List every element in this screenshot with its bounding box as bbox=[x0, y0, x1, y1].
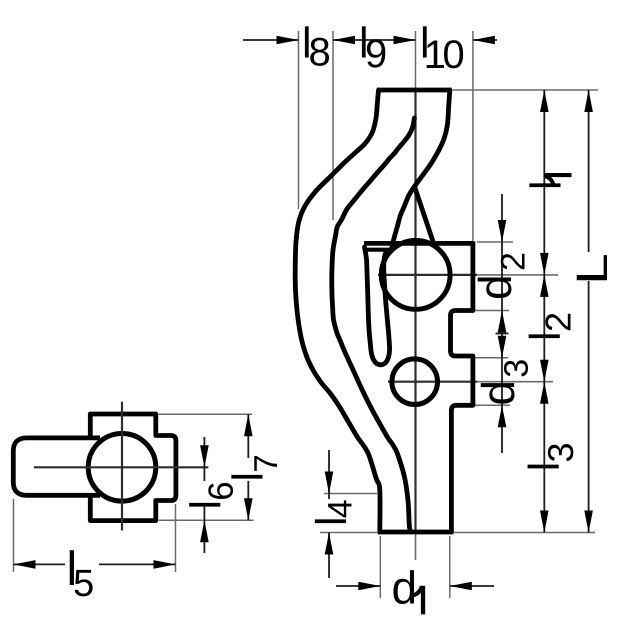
label l1 bbox=[529, 173, 571, 187]
arrow l6 top bbox=[200, 445, 209, 467]
label d3 bbox=[481, 360, 528, 403]
bore d2 circle bbox=[381, 241, 450, 310]
dim line l9 bbox=[333, 39, 416, 41]
arrow L top bbox=[584, 90, 593, 112]
dim line l6 upper bbox=[203, 437, 205, 481]
arrow l2 top bbox=[540, 275, 549, 297]
handle right neck contour bbox=[392, 90, 450, 250]
arrow l5 right bbox=[154, 560, 176, 569]
arrow l9 right bbox=[394, 36, 416, 45]
handle outer left contour bbox=[295, 90, 380, 532]
arrow d2 bottom bbox=[498, 311, 507, 333]
handle inner left contour bbox=[332, 118, 415, 530]
arrow d1 right bbox=[450, 582, 472, 591]
label l5 bbox=[70, 550, 93, 596]
extension line l4 bbox=[324, 493, 377, 495]
arrow l1 top bbox=[540, 90, 549, 112]
label l8 bbox=[305, 26, 329, 66]
label l6 bbox=[189, 483, 233, 507]
gusset line to boss bbox=[415, 187, 434, 242]
arrow l4 top bbox=[325, 472, 334, 494]
clamp bore circle bbox=[88, 434, 156, 502]
arrow l8 left bbox=[277, 36, 299, 45]
arrow l3 top bbox=[540, 382, 549, 404]
main centerline extension top bbox=[415, 31, 417, 90]
arrow l10 right bbox=[473, 36, 495, 45]
arrow d1 left bbox=[358, 582, 380, 591]
bore d2 centerline bbox=[378, 274, 477, 276]
dim line l8 tail bbox=[243, 39, 299, 41]
dim line d1 right bbox=[450, 585, 494, 587]
clamp horizontal centerline bbox=[34, 466, 209, 468]
dim chain l1 l2 l3 bbox=[543, 90, 545, 533]
extension tick d3 top bbox=[475, 357, 508, 359]
extension tick d3 bottom bbox=[475, 404, 510, 406]
label l3 bbox=[528, 444, 574, 468]
dim line l4 lower bbox=[328, 533, 330, 579]
label l9 bbox=[362, 26, 385, 67]
dim line L lower bbox=[588, 281, 590, 533]
arrow l5 left bbox=[14, 560, 36, 569]
extension line l5 right bbox=[175, 504, 177, 572]
label l7 bbox=[231, 456, 277, 479]
label l4 bbox=[315, 500, 352, 523]
arrow l3 bottom bbox=[540, 511, 549, 533]
clamp head outline bbox=[90, 414, 176, 521]
boss inner top edge bbox=[367, 248, 391, 252]
extension line l8 right bbox=[332, 31, 334, 220]
extension line top edge bbox=[452, 89, 598, 91]
arrow l7 top bbox=[244, 414, 253, 436]
bore d3 centerline bbox=[388, 381, 477, 383]
dim line d2 d3 bbox=[501, 194, 503, 453]
arrow l7 bottom bbox=[244, 498, 253, 520]
bore d2 centerline extension bbox=[477, 274, 558, 276]
bore d3 circle bbox=[392, 359, 438, 405]
tick between d2 d3 arrows bbox=[496, 333, 509, 335]
arrow l2 bottom bbox=[540, 360, 549, 382]
dim line l4 upper bbox=[328, 450, 330, 499]
boss right edge with notch bbox=[451, 241, 473, 532]
dim line l7 upper bbox=[247, 414, 249, 458]
main centerline extension bottom bbox=[415, 532, 417, 560]
label d1 bbox=[393, 570, 425, 614]
extension tick d2 bottom bbox=[475, 310, 509, 312]
label l2 bbox=[529, 314, 571, 338]
handle top edge bbox=[377, 88, 452, 93]
arrow l6 bottom bbox=[200, 520, 209, 542]
arrow L bottom bbox=[584, 511, 593, 533]
label L bbox=[577, 255, 607, 280]
extension line bottom right bbox=[454, 532, 595, 534]
clamp vertical centerline bbox=[121, 402, 123, 531]
bore d3 centerline extension bbox=[477, 381, 553, 383]
dim line l10 tail bbox=[473, 39, 497, 41]
arrow d2 top bbox=[498, 220, 507, 242]
extension line d1 left bbox=[379, 536, 381, 598]
stem bottom edge bbox=[378, 530, 454, 535]
label d2 bbox=[478, 254, 525, 298]
extension tick d2 top bbox=[477, 241, 513, 243]
clamp arm outline bbox=[13, 438, 100, 495]
arrow d3 top bbox=[498, 336, 507, 358]
pawl contour bbox=[365, 247, 390, 365]
arrow l4 bottom bbox=[325, 533, 334, 555]
dim line l6 lower bbox=[203, 506, 205, 553]
arrow l8 right bbox=[333, 36, 355, 45]
extension line d1 right bbox=[449, 536, 451, 598]
extension line l5 left bbox=[13, 499, 15, 572]
boss top edge bbox=[364, 241, 473, 246]
dim line l7 lower bbox=[247, 481, 249, 520]
extension line head top bbox=[159, 413, 253, 415]
extension line bottom left bbox=[320, 532, 377, 534]
clamp arm fill bbox=[13, 438, 100, 495]
arrow d3 bottom bbox=[498, 405, 507, 427]
extension line boss right bbox=[472, 31, 474, 241]
dim line l5 left bbox=[14, 563, 66, 565]
extension line head bottom bbox=[159, 519, 254, 521]
extension line l8 left bbox=[298, 31, 300, 209]
dim line L upper bbox=[588, 90, 590, 252]
main centerline bbox=[414, 90, 416, 532]
dim line d1 left bbox=[336, 585, 380, 587]
label l10 bbox=[423, 26, 463, 68]
arrow l1 bottom bbox=[540, 253, 549, 275]
dim line l5 right bbox=[99, 563, 176, 565]
